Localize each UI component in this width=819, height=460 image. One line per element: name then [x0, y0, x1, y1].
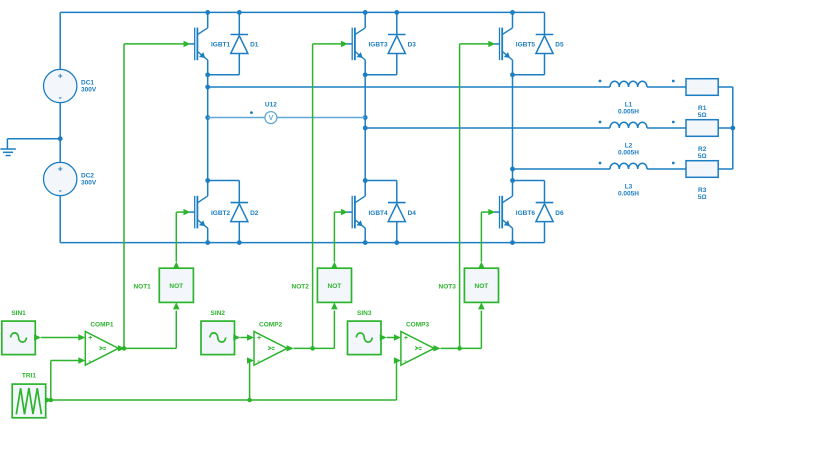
transistor IGBT4	[346, 181, 365, 243]
wire SIN3 output	[380, 334, 387, 340]
node emitter junction	[510, 72, 515, 77]
wire carrier branch 2	[247, 357, 254, 400]
diode D4	[388, 181, 406, 243]
svg-text:300V: 300V	[81, 86, 97, 93]
node top rail diode D1	[237, 10, 242, 15]
node emitter junction	[363, 72, 368, 77]
svg-text:SIN1: SIN1	[11, 310, 26, 317]
inverter NOT2	[317, 268, 351, 302]
svg-text:D5: D5	[555, 42, 564, 49]
wire NOT3 to lower gate	[478, 209, 495, 269]
polarity dot right	[672, 121, 675, 124]
svg-text:R1: R1	[698, 105, 707, 112]
node phase tap 1	[205, 85, 210, 90]
svg-text:NOT: NOT	[328, 283, 342, 290]
node top rail leg 1	[205, 10, 210, 15]
wire NOT1 to lower gate	[173, 209, 191, 269]
wire DC2 to bottom rail	[59, 196, 61, 243]
polarity dot left	[599, 162, 602, 165]
wire into NOT2	[331, 302, 338, 348]
svg-text:IGBT1: IGBT1	[211, 42, 231, 49]
wire PWM2 to upper gate	[313, 41, 348, 349]
source SIN1	[2, 321, 36, 355]
node TRI1 output junction	[49, 398, 54, 403]
wire COMP1 output	[118, 345, 125, 351]
wire phase A	[208, 86, 610, 88]
svg-text:DC2: DC2	[81, 172, 94, 179]
svg-text:NOT: NOT	[169, 283, 183, 290]
wire neutral bus	[732, 87, 734, 169]
node meter tap leg 1	[205, 115, 210, 120]
transistor IGBT3	[346, 12, 365, 74]
transistor IGBT1	[189, 12, 208, 74]
node emitter junction	[205, 72, 210, 77]
svg-text:D3: D3	[408, 42, 417, 49]
svg-text:NOT1: NOT1	[133, 284, 151, 291]
inverter NOT1	[159, 268, 193, 302]
source SIN2	[201, 321, 235, 355]
wire inductor to resistor R2	[647, 127, 686, 129]
source TRI1	[12, 384, 46, 418]
svg-text:0.005H: 0.005H	[618, 150, 639, 157]
node carrier junction 2	[247, 398, 252, 403]
svg-text:TRI1: TRI1	[22, 372, 36, 379]
node top rail leg 2	[363, 10, 368, 15]
svg-text:COMP2: COMP2	[259, 322, 283, 329]
svg-text:+: +	[88, 335, 92, 342]
svg-text:D6: D6	[555, 210, 564, 217]
source DC2 300V	[44, 162, 77, 195]
wire leg 1 midsection	[207, 75, 209, 181]
svg-text:D1: D1	[250, 42, 259, 49]
transistor IGBT5	[494, 12, 513, 74]
wire phase C	[513, 168, 611, 170]
svg-text:NOT: NOT	[475, 283, 489, 290]
node neutral junction	[730, 126, 735, 131]
node top rail diode D3	[394, 10, 399, 15]
wire leg 3 midsection	[512, 75, 514, 181]
svg-text:L2: L2	[625, 143, 633, 150]
wire inductor to resistor R1	[647, 86, 686, 88]
diode D2	[231, 181, 249, 243]
wire diode D1 anode to emitter	[208, 74, 240, 76]
wire triangle carrier bus	[51, 399, 397, 401]
svg-text:+: +	[58, 164, 63, 174]
svg-text:D2: D2	[250, 210, 259, 217]
svg-text:IGBT3: IGBT3	[369, 42, 389, 49]
svg-text:300V: 300V	[81, 179, 97, 186]
svg-text:5Ω: 5Ω	[698, 153, 707, 160]
svg-text:5Ω: 5Ω	[698, 194, 707, 201]
resistor R3 5&#937;	[686, 161, 718, 178]
wire left vertical to DC1	[59, 12, 61, 69]
svg-text:D4: D4	[408, 210, 417, 217]
ground	[0, 139, 16, 156]
polarity dot right	[672, 162, 675, 165]
svg-text:5Ω: 5Ω	[698, 112, 707, 119]
diode D1	[231, 12, 249, 74]
svg-text:IGBT4: IGBT4	[369, 210, 389, 217]
svg-text:SIN2: SIN2	[211, 310, 226, 317]
node bottom rail leg 2	[363, 240, 368, 245]
polarity dot left	[599, 80, 602, 83]
svg-text:L3: L3	[625, 184, 633, 191]
op-amp COMP1	[85, 332, 118, 366]
svg-text:COMP3: COMP3	[406, 322, 430, 329]
op-amp COMP3	[401, 332, 434, 366]
svg-text:IGBT6: IGBT6	[516, 210, 536, 217]
wire leg 2 midsection	[364, 75, 366, 181]
svg-text:+: +	[404, 335, 408, 342]
transistor IGBT2	[189, 181, 208, 243]
wire into NOT3	[478, 302, 485, 348]
svg-text:V: V	[269, 115, 274, 122]
svg-text:0.005H: 0.005H	[618, 109, 639, 116]
wire into NOT1	[173, 302, 180, 348]
node top rail leg 3	[510, 10, 515, 15]
wire NOT2 to lower gate	[331, 209, 348, 269]
svg-text:R2: R2	[698, 146, 707, 153]
svg-text:-: -	[59, 186, 62, 196]
wire to ground	[7, 138, 60, 140]
wire PWM1 to upper gate	[124, 41, 191, 349]
svg-text:R3: R3	[698, 187, 707, 194]
wire carrier branch 3	[394, 357, 401, 400]
wire COMP3 output	[434, 345, 441, 351]
meter polarity dot	[250, 111, 253, 114]
node meter tap leg 2	[363, 115, 368, 120]
node phase tap 3	[510, 167, 515, 172]
polarity dot right	[672, 80, 675, 83]
node lower junction leg 2	[363, 178, 368, 183]
wire DC1 to DC2	[59, 103, 61, 163]
wire to diode D4	[365, 180, 397, 182]
node PWM2 junction	[310, 346, 315, 351]
node lower junction leg 3	[510, 178, 515, 183]
inverter NOT3	[464, 268, 498, 302]
wire inductor to resistor R3	[647, 168, 686, 170]
inductor L2 0.005H	[610, 122, 647, 128]
wire top DC bus rail	[60, 11, 544, 13]
node PWM3 junction	[457, 346, 462, 351]
svg-text:+: +	[58, 71, 63, 81]
diode D3	[388, 12, 406, 74]
svg-text:IGBT2: IGBT2	[211, 210, 231, 217]
node midpoint junction	[58, 136, 63, 141]
op-amp COMP2	[254, 332, 287, 366]
svg-text:IGBT5: IGBT5	[516, 42, 536, 49]
wire COMP2 output	[287, 345, 294, 351]
node bottom rail diode D2	[237, 240, 242, 245]
resistor R1 5&#937;	[686, 79, 718, 96]
wire diode D3 anode to emitter	[365, 74, 397, 76]
node bottom rail leg 3	[510, 240, 515, 245]
svg-text:SIN3: SIN3	[357, 310, 372, 317]
inductor L3 0.005H	[610, 163, 647, 169]
transistor IGBT6	[494, 181, 513, 243]
diode D6	[536, 181, 554, 243]
svg-text:COMP1: COMP1	[90, 322, 114, 329]
svg-text:DC1: DC1	[81, 79, 94, 86]
diode D5	[536, 12, 554, 74]
wire to diode D2	[208, 180, 240, 182]
svg-text:NOT3: NOT3	[439, 284, 457, 291]
wire phase B	[365, 127, 610, 129]
svg-text:U12: U12	[265, 102, 277, 109]
svg-text:+: +	[257, 335, 261, 342]
node lower junction leg 1	[205, 178, 210, 183]
svg-text:L1: L1	[625, 102, 633, 109]
node bottom rail diode D4	[394, 240, 399, 245]
wire diode D5 anode to emitter	[513, 74, 545, 76]
inductor L1 0.005H	[610, 81, 647, 87]
node phase tap 2	[363, 126, 368, 131]
wire resistor R3 to neutral bus	[718, 168, 733, 170]
wire to diode D6	[513, 180, 545, 182]
node PWM1 junction	[122, 346, 127, 351]
wire SIN2 output	[233, 334, 240, 340]
polarity dot left	[599, 121, 602, 124]
wire resistor R1 to neutral bus	[718, 86, 733, 88]
wire resistor R2 to neutral bus	[718, 127, 733, 129]
svg-text:NOT2: NOT2	[292, 284, 310, 291]
voltmeter U12	[208, 112, 366, 124]
source DC1 300V	[44, 69, 77, 102]
node bottom rail leg 1	[205, 240, 210, 245]
wire bottom DC bus rail	[60, 242, 544, 244]
wire TRI1 output	[45, 397, 52, 403]
wire PWM3 to upper gate	[460, 41, 496, 349]
wire carrier branch 1	[51, 357, 86, 400]
source SIN3	[348, 321, 382, 355]
wire SIN1 output	[34, 334, 41, 340]
svg-text:0.005H: 0.005H	[618, 191, 639, 198]
resistor R2 5&#937;	[686, 120, 718, 137]
svg-text:-: -	[59, 93, 62, 103]
